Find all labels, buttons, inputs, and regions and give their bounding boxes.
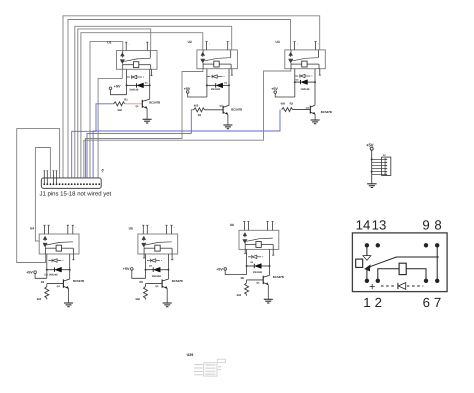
wire J1 pin to U4 pole (inner loop) — [35, 148, 50, 242]
relay U5 internal diode indicator — [148, 260, 150, 262]
relay pinout actuator — [356, 259, 363, 267]
resistor R6 — [246, 280, 248, 283]
svg-text:+5V: +5V — [216, 267, 223, 271]
svg-text:1N4148: 1N4148 — [253, 271, 263, 274]
wire R2 to Q2 base — [205, 109, 224, 111]
ground circuit 2 — [223, 124, 232, 126]
svg-text:6: 6 — [75, 226, 76, 229]
svg-text:1N4148: 1N4148 — [129, 88, 139, 91]
svg-text:6: 6 — [423, 295, 430, 310]
transistor Q1 — [141, 100, 143, 108]
relay U2 bottom pin stubs — [231, 69, 233, 75]
svg-text:8: 8 — [434, 217, 441, 232]
relay pinout internal diode dashed — [381, 285, 397, 287]
connector J2 pin wires — [372, 158, 386, 160]
svg-text:U6: U6 — [230, 223, 234, 227]
wire Q4 base — [47, 283, 64, 285]
svg-text:1N4148: 1N4148 — [300, 88, 310, 91]
relay U5 top pin stubs — [142, 225, 144, 234]
wire pin 8 to pin 7 — [436, 245, 438, 280]
svg-text:660: 660 — [237, 294, 242, 297]
svg-text:1N4148: 1N4148 — [152, 275, 162, 278]
svg-text:1N4148: 1N4148 — [211, 88, 221, 91]
svg-text:BC547B: BC547B — [73, 279, 84, 283]
svg-text:660: 660 — [281, 102, 286, 105]
svg-text:9: 9 — [129, 43, 130, 46]
wire coil to pin 2 — [378, 269, 399, 281]
component U29 ghost pin labels — [194, 364, 203, 366]
relay pinout pins top row — [365, 243, 369, 247]
resistor R4 — [46, 284, 48, 287]
svg-text:BC547B: BC547B — [231, 108, 242, 112]
relay U6 internal diode indicator — [249, 256, 251, 258]
svg-text:5: 5 — [318, 42, 319, 45]
diode D3 — [295, 81, 301, 83]
svg-text:R4: R4 — [41, 281, 45, 284]
svg-text:9: 9 — [297, 42, 298, 45]
svg-text:2: 2 — [151, 226, 152, 229]
svg-text:BC547B: BC547B — [149, 100, 160, 104]
diode D5 — [146, 269, 154, 271]
relay U4 top pin stubs — [44, 225, 46, 234]
wire +5V to U4 coil — [35, 274, 47, 279]
wire Q4 emitter to ground — [68, 289, 70, 304]
svg-text:13: 13 — [372, 217, 387, 232]
wire U4 coil feed — [46, 254, 48, 270]
relay pinout diagram outline — [352, 233, 447, 292]
svg-text:660: 660 — [37, 298, 42, 301]
relay U6 top pin stubs — [243, 222, 245, 231]
svg-text:5: 5 — [230, 42, 231, 45]
wire Q6 base — [247, 279, 264, 281]
wire J1 pin to U4 contact (outer loop) — [17, 129, 60, 263]
wire Q5 base — [146, 283, 163, 285]
wire Q1 emitter to ground — [146, 109, 148, 120]
wire +5V to U5 coil — [132, 270, 146, 278]
svg-text:14: 14 — [356, 217, 371, 232]
svg-text:2: 2 — [375, 295, 382, 310]
svg-text:1: 1 — [363, 295, 370, 310]
transistor Q6 — [262, 276, 264, 284]
wire R3 to Q3 base — [293, 109, 311, 111]
transistor Q3 — [309, 106, 311, 114]
relay U2 — [197, 50, 238, 69]
wire +5V to U1 coil — [111, 90, 127, 95]
transistor Q4 — [62, 279, 64, 287]
wire Q2 emitter to ground — [227, 115, 229, 126]
wire Q5 emitter to ground — [166, 289, 168, 304]
svg-text:5: 5 — [150, 43, 151, 46]
svg-text:6: 6 — [275, 222, 276, 225]
wire U5 coil to Q5 collector — [167, 254, 169, 279]
relay U3 top pin stubs — [294, 42, 296, 50]
wire net J1-12 to U1 pin B — [78, 29, 151, 184]
transistor Q2 — [222, 106, 224, 114]
wire Q6 emitter to ground — [267, 285, 269, 300]
svg-text:R2: R2 — [198, 114, 202, 117]
wire U2 pole to J1 — [86, 69, 203, 184]
component U29 ghost body — [204, 363, 217, 376]
svg-text:9: 9 — [209, 42, 210, 45]
resistor R5 — [145, 284, 147, 287]
relay U5 — [138, 234, 178, 254]
wire +5V to U2 coil — [188, 93, 207, 97]
svg-text:+5V: +5V — [184, 87, 191, 91]
svg-text:U1: U1 — [107, 41, 111, 45]
svg-text:660: 660 — [194, 104, 199, 107]
relay U4 internal diode indicator — [49, 260, 51, 262]
relay U6 pole stub — [244, 249, 246, 253]
wire blue control net J1 to R3 — [93, 110, 280, 184]
resistor R2 — [194, 108, 205, 112]
diode D1 — [127, 84, 137, 86]
diode D4 — [47, 269, 55, 271]
svg-text:660: 660 — [136, 298, 141, 301]
wire net J1-16 to U1 pin A — [90, 42, 123, 184]
relay U1 top pin stubs — [125, 42, 127, 50]
transistor Q5 — [161, 279, 163, 287]
ground circuit 4 — [64, 302, 73, 304]
svg-text:R5: R5 — [140, 281, 144, 284]
relay pinout pins bottom row — [365, 279, 369, 283]
wire U3 pole to J1 — [84, 69, 291, 184]
wire U3 coil to Q3 collector — [314, 69, 316, 82]
connector J1 unwired pin stubs (15-18) — [43, 171, 45, 184]
svg-text:7: 7 — [434, 295, 441, 310]
wire U1 pole to J1 — [98, 64, 122, 184]
wire U6 coil to Q6 collector — [269, 249, 271, 275]
junction dots J2 — [371, 158, 373, 160]
svg-text:2: 2 — [52, 226, 53, 229]
wire U1 coil to Q1 collector — [149, 69, 151, 85]
wire R1 to Q1 base — [125, 103, 143, 105]
relay U1 bottom pin stubs — [151, 69, 153, 75]
ground circuit 1 — [143, 118, 152, 120]
resistor R3 — [282, 108, 293, 112]
relay pinout armature from pin 1 — [366, 269, 368, 281]
svg-text:R6: R6 — [241, 277, 245, 280]
svg-text:R1: R1 — [124, 98, 128, 101]
svg-text:+5V: +5V — [26, 271, 33, 275]
svg-text:+5V: +5V — [114, 84, 121, 88]
wire net J1-13 to U2 pin A — [81, 33, 203, 184]
svg-text:9: 9 — [422, 217, 429, 232]
wire coil to pin 6 — [406, 269, 426, 281]
wire U2 coil to Q2 collector — [228, 69, 230, 86]
wire U1 coil to +5V node — [126, 69, 128, 85]
relay U5 pole stub — [143, 254, 145, 258]
svg-text:660: 660 — [118, 109, 123, 112]
wire U3 coil to +5V node — [294, 69, 296, 82]
wire net J1-11 to U2 pin B — [75, 26, 232, 184]
wire net J1-9 to U3 pin A — [68, 20, 291, 184]
connector J1 — [41, 178, 101, 189]
wire net J1-7 to U3 pin B — [63, 16, 320, 184]
ground circuit 5 — [163, 302, 172, 304]
svg-text:U29: U29 — [187, 353, 194, 357]
connector J1 pins — [43, 183, 45, 185]
relay U2 internal diode indicator — [208, 76, 210, 78]
wire blue control net J1 to R1 — [72, 104, 114, 184]
relay pinout armature contact from pin 14 — [366, 245, 368, 256]
diode D6 — [247, 265, 255, 267]
wire +5V to U3 coil — [275, 94, 295, 98]
svg-text:2: 2 — [252, 222, 253, 225]
ground circuit 6 — [264, 298, 273, 300]
wire blue control net J1 to R2 — [87, 110, 194, 184]
relay U6 bottom pin stubs — [272, 249, 274, 255]
relay U4 — [39, 234, 79, 254]
svg-text:BC547B: BC547B — [172, 279, 183, 283]
ground J2 — [367, 183, 377, 185]
relay U1 — [117, 51, 158, 70]
svg-text:+5V: +5V — [271, 87, 278, 91]
svg-text:+5V: +5V — [123, 267, 130, 271]
diode D2 — [207, 84, 216, 86]
relay U3 — [285, 50, 326, 69]
svg-text:6: 6 — [174, 226, 175, 229]
svg-text:U4: U4 — [30, 227, 34, 231]
wire U6 coil feed — [246, 249, 248, 266]
wire +5V to U6 coil — [225, 270, 246, 274]
svg-text:J1 pins 15-18 not wired yet: J1 pins 15-18 not wired yet — [40, 191, 112, 198]
resistor R1 — [114, 102, 125, 106]
connector J2 — [382, 157, 391, 175]
svg-text:U5: U5 — [129, 227, 133, 231]
svg-text:BC547B: BC547B — [273, 275, 284, 279]
wire U4 coil to Q4 collector — [69, 254, 71, 279]
relay pinout armature arm — [368, 257, 439, 267]
ground circuit 3 — [311, 119, 320, 121]
wire U2 coil to +5V node — [206, 69, 208, 86]
relay U3 bottom pin stubs — [319, 69, 321, 75]
svg-text:+: + — [369, 281, 375, 293]
svg-text:U2: U2 — [188, 40, 192, 44]
relay pinout coil — [399, 263, 406, 274]
svg-text:U3: U3 — [276, 40, 280, 44]
wire U5 coil feed — [145, 254, 147, 270]
svg-text:BC547B: BC547B — [321, 110, 332, 114]
wire +5V to J2 — [371, 150, 373, 184]
svg-text:R3: R3 — [290, 102, 294, 105]
svg-text:+5V: +5V — [366, 142, 374, 147]
relay U3 internal diode indicator — [296, 75, 298, 77]
relay U5 bottom pin stubs — [171, 254, 173, 260]
relay U2 top pin stubs — [206, 42, 208, 50]
relay U6 — [239, 230, 279, 249]
relay U1 internal diode indicator — [128, 76, 130, 78]
relay U4 bottom pin stubs — [72, 254, 74, 260]
wire Q3 emitter to ground — [314, 114, 316, 120]
